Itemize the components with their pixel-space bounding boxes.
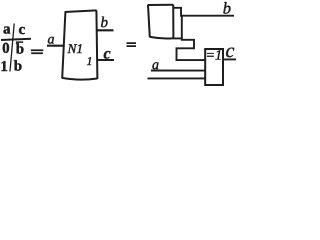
- svg-text:0: 0: [2, 41, 10, 57]
- svg-text:a: a: [47, 32, 54, 47]
- svg-text:a: a: [3, 21, 11, 37]
- svg-text:b: b: [101, 15, 109, 31]
- svg-text:N1: N1: [66, 41, 83, 56]
- svg-text:c: c: [103, 45, 110, 62]
- svg-text:b: b: [14, 58, 22, 74]
- svg-text:c: c: [225, 40, 234, 62]
- svg-text:a: a: [152, 58, 159, 73]
- svg-text:1: 1: [86, 54, 92, 68]
- svg-text:b: b: [16, 41, 24, 57]
- svg-text:=1: =1: [205, 49, 221, 64]
- svg-text:c: c: [19, 22, 26, 38]
- svg-text:1: 1: [0, 59, 8, 75]
- svg-text:b: b: [223, 0, 231, 18]
